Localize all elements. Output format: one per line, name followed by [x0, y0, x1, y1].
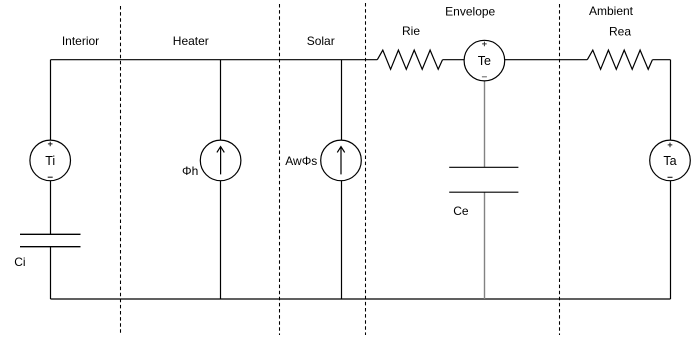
- wire Ti bottom to Ci top plate: [50, 181, 52, 235]
- section divider Envelope/Ambient: [559, 4, 561, 335]
- svg-text:Te: Te: [478, 54, 491, 68]
- wire Ci bottom plate to bottom net: [50, 247, 52, 299]
- svg-text:Ambient: Ambient: [589, 4, 634, 18]
- svg-text:AwΦs: AwΦs: [285, 154, 317, 168]
- wire left vertical top to Ti: [50, 60, 52, 141]
- voltage source Ti: [30, 140, 71, 181]
- svg-text:Solar: Solar: [307, 34, 335, 48]
- wire heater branch top: [220, 60, 222, 141]
- svg-text:Rea: Rea: [609, 24, 631, 38]
- capacitor Ce: [449, 167, 518, 192]
- wire bottom net: [51, 298, 671, 300]
- svg-text:Heater: Heater: [173, 34, 209, 48]
- wire Ce bottom plate to bottom net (grey): [484, 192, 486, 299]
- svg-text:Ti: Ti: [45, 154, 55, 168]
- section divider Heater/Solar: [279, 4, 281, 335]
- svg-text:Ci: Ci: [14, 255, 25, 269]
- resistor Rea: [587, 50, 652, 69]
- svg-text:Ce: Ce: [453, 204, 469, 218]
- wire Ta bottom to bottom net: [670, 181, 672, 299]
- wire solar branch top: [341, 60, 343, 141]
- wire Rea right to top-right corner: [652, 59, 670, 61]
- svg-text:Ta: Ta: [663, 154, 676, 168]
- capacitor Ci: [20, 234, 81, 246]
- current source Phi_h (heater): [200, 140, 241, 181]
- svg-text:Φh: Φh: [182, 164, 198, 178]
- svg-text:Rie: Rie: [402, 24, 420, 38]
- wire Te bottom to Ce top plate (grey): [484, 81, 486, 167]
- current source AwPhi_s (solar): [321, 140, 362, 181]
- wire solar branch bottom: [341, 181, 343, 299]
- wire heater branch bottom: [220, 181, 222, 299]
- voltage source Te: [464, 40, 505, 81]
- voltage source Ta: [650, 140, 691, 181]
- wire Rie right to Te left: [443, 59, 465, 61]
- section divider Solar/Envelope: [365, 3, 367, 335]
- svg-text:Envelope: Envelope: [445, 4, 495, 18]
- svg-text:Interior: Interior: [62, 34, 99, 48]
- wire Te right to Rea left: [505, 59, 588, 61]
- wire right vertical corner to Ta top: [670, 60, 672, 141]
- wire top net (Ti/heater/solar to Rie left): [51, 59, 378, 61]
- section divider Interior/Heater: [120, 6, 122, 335]
- resistor Rie: [377, 50, 442, 69]
